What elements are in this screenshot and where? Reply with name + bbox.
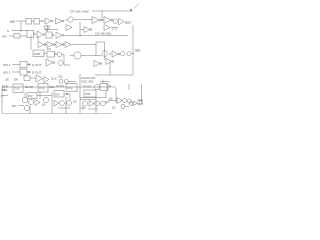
svg-text:S1 CK: S1 CK — [25, 85, 33, 89]
gate G7 below — [94, 61, 100, 67]
wire v right — [141, 84, 143, 103]
wire — [45, 44, 96, 46]
flip-flop FF2 — [38, 84, 48, 93]
wire h y75 — [95, 74, 133, 76]
circle gate — [129, 102, 133, 106]
wire h y42 — [96, 41, 105, 43]
circle gate — [59, 79, 63, 83]
wire v — [95, 97, 97, 114]
gate tri — [89, 101, 94, 107]
wire — [63, 62, 64, 64]
circle gate — [94, 84, 99, 89]
gate box B1b — [47, 52, 55, 58]
svg-text:S2C: S2C — [49, 85, 54, 89]
wire v x31 — [30, 36, 32, 50]
marks — [80, 106, 98, 111]
gate G6 mid — [66, 25, 72, 31]
svg-text:S: S — [7, 29, 9, 33]
svg-text:SDI: SDI — [135, 49, 140, 53]
svg-text:R: R — [109, 84, 111, 88]
wire row2 long — [64, 35, 128, 37]
inverter U4 — [104, 17, 111, 24]
inverter U2 — [56, 18, 63, 24]
junction — [21, 30, 22, 31]
circle gate U2b — [68, 17, 73, 22]
circle gate — [121, 105, 125, 109]
wire — [32, 20, 46, 22]
wire — [70, 55, 102, 57]
svg-text:A: A — [130, 8, 133, 13]
circle gate — [64, 80, 68, 84]
left border wire — [1, 87, 3, 114]
register box B1 — [33, 50, 44, 57]
wire vertical left — [20, 21, 22, 30]
circle gate — [122, 98, 126, 102]
wire — [12, 64, 20, 66]
gate box row1 — [20, 62, 27, 68]
gate G9 — [36, 75, 43, 82]
wire — [20, 35, 27, 37]
svg-text:DIV: DIV — [28, 94, 33, 98]
circle gate — [113, 19, 117, 23]
wire — [27, 64, 31, 66]
wire row2a — [11, 30, 27, 32]
flip-flop FF4 — [100, 84, 108, 91]
gate box row3 — [24, 76, 30, 81]
wire v — [29, 106, 31, 114]
gate tri — [35, 100, 40, 106]
svg-text:S3 CK: S3 CK — [56, 84, 64, 88]
wire — [37, 95, 52, 97]
sub box B5 — [84, 90, 96, 97]
gate box small — [14, 34, 20, 39]
wire — [30, 77, 36, 79]
wire v x38 — [37, 36, 39, 42]
svg-text:RST: RST — [125, 21, 131, 25]
bottom bus wire — [2, 113, 112, 115]
circle gate — [22, 97, 28, 103]
wire — [18, 105, 24, 107]
circle gate — [67, 101, 72, 106]
inverter V4 — [65, 42, 71, 48]
sub box B4 — [54, 91, 64, 98]
circle gate — [121, 52, 125, 56]
svg-text:OSC SEL: OSC SEL — [81, 80, 94, 84]
circle gate — [28, 99, 33, 104]
svg-text:D Q: D Q — [15, 87, 21, 91]
svg-text:EN: EN — [14, 78, 18, 82]
svg-text:Q OUT: Q OUT — [32, 71, 42, 75]
wire — [27, 71, 31, 73]
wire v — [51, 92, 53, 114]
svg-text:CLK INH SEL: CLK INH SEL — [95, 32, 112, 36]
svg-text:D Q: D Q — [40, 86, 46, 90]
svg-text:W2: W2 — [2, 35, 7, 39]
junction — [110, 54, 111, 55]
inverter V1 — [38, 42, 44, 48]
wire h y99 — [80, 98, 96, 100]
circle gate — [95, 101, 100, 106]
inverter U1 — [45, 18, 52, 24]
svg-text:P: P — [1, 94, 3, 98]
wire — [65, 19, 68, 21]
svg-text:OUT: OUT — [138, 102, 144, 106]
circle gate — [127, 99, 131, 103]
circle gate — [60, 101, 65, 106]
buffer U6 lower — [84, 27, 90, 33]
svg-text:WS 2: WS 2 — [3, 71, 11, 75]
wire row1 — [16, 20, 26, 22]
circle gate — [58, 61, 63, 66]
circle gate — [57, 52, 62, 57]
svg-text:CNT: CNT — [85, 92, 91, 96]
gate tri small — [134, 101, 138, 105]
wire v — [106, 84, 108, 91]
svg-text:DIV: DIV — [55, 93, 60, 97]
svg-text:CP OSC MHZ: CP OSC MHZ — [70, 9, 89, 13]
svg-text:WS 1: WS 1 — [3, 63, 11, 67]
junction — [102, 20, 103, 21]
wire top bus — [92, 10, 129, 12]
wire — [46, 25, 48, 31]
wire v — [39, 92, 41, 99]
svg-text:CLK: CLK — [51, 77, 57, 81]
bottom band top bus wire — [2, 86, 116, 88]
wire — [80, 29, 84, 31]
wire v — [115, 88, 117, 103]
wire v — [101, 11, 103, 20]
big circle gate U10 — [74, 52, 81, 59]
wire — [44, 54, 64, 55]
wire h y97.5 — [80, 97, 106, 99]
wire — [125, 106, 129, 108]
wire — [68, 81, 76, 83]
wire — [12, 71, 20, 73]
wire — [101, 19, 104, 21]
gate box row2 — [20, 69, 27, 75]
wire row2c upper — [44, 26, 58, 30]
wire v — [109, 62, 111, 76]
wire v — [128, 84, 130, 90]
wire v x106 — [105, 91, 107, 98]
svg-text:DC: DC — [112, 106, 116, 110]
svg-text:Q OUT: Q OUT — [32, 63, 42, 67]
inverter U11 — [112, 51, 118, 57]
wire v x96 — [95, 42, 97, 56]
svg-text:SUB: SUB — [34, 52, 40, 56]
wire v box1 down — [24, 93, 26, 98]
wire — [73, 19, 92, 21]
gate box — [46, 32, 52, 38]
sub box B3 — [27, 93, 37, 99]
circle gate — [101, 101, 106, 106]
svg-text:Q1: Q1 — [42, 103, 46, 107]
gate G2 — [34, 19, 40, 25]
svg-text:S3L: S3L — [58, 75, 63, 79]
marks — [58, 97, 70, 114]
svg-text:SDO: SDO — [138, 99, 144, 103]
svg-text:Q4: Q4 — [109, 97, 113, 101]
inverter U5 — [119, 18, 125, 24]
gate G1 — [26, 19, 32, 25]
flip-flop FF3 — [66, 84, 77, 92]
marks left — [2, 95, 8, 97]
wire vertical long x133 — [132, 25, 134, 75]
svg-text:EN: EN — [47, 47, 51, 51]
svg-text:MR: MR — [10, 20, 16, 24]
gate G3 small — [44, 26, 50, 32]
gate row2 — [46, 59, 53, 66]
marks — [100, 80, 110, 84]
circle gate — [24, 105, 29, 110]
buffer U3 — [92, 17, 99, 24]
gate G4 lower right — [104, 25, 110, 31]
wire v x80 — [79, 22, 81, 36]
inverter V2 — [47, 42, 53, 48]
wire — [108, 100, 117, 102]
circle gate — [83, 101, 88, 106]
wire marks — [111, 28, 118, 31]
circle gate mid — [103, 50, 108, 56]
svg-text:CE: CE — [5, 78, 9, 82]
svg-text:SEL: SEL — [2, 88, 8, 92]
svg-text:S4 CK: S4 CK — [83, 85, 91, 89]
wire — [112, 20, 115, 22]
inverter U8 — [56, 32, 62, 39]
junction — [80, 35, 81, 36]
flip-flop FF1 — [13, 84, 23, 93]
wire v — [79, 74, 81, 114]
gates cluster2 — [54, 100, 59, 106]
wire feedback — [64, 55, 70, 66]
svg-text:D Q: D Q — [68, 86, 74, 90]
nand G5 — [27, 31, 34, 38]
svg-text:Q2: Q2 — [73, 100, 77, 104]
inverter V3 — [56, 42, 62, 48]
circle gate — [43, 97, 48, 102]
gate G10 — [44, 77, 49, 83]
circle gate — [127, 52, 131, 56]
wire diag — [135, 4, 140, 9]
gate tri — [117, 98, 122, 104]
wire — [131, 53, 134, 55]
wire v x110 — [104, 42, 106, 60]
gate G8 below — [106, 59, 112, 65]
wire row2b — [9, 35, 14, 37]
wire v x70b — [69, 94, 71, 100]
wire — [64, 93, 70, 95]
inverter U7 — [37, 31, 43, 38]
svg-text:RC: RC — [12, 104, 16, 108]
